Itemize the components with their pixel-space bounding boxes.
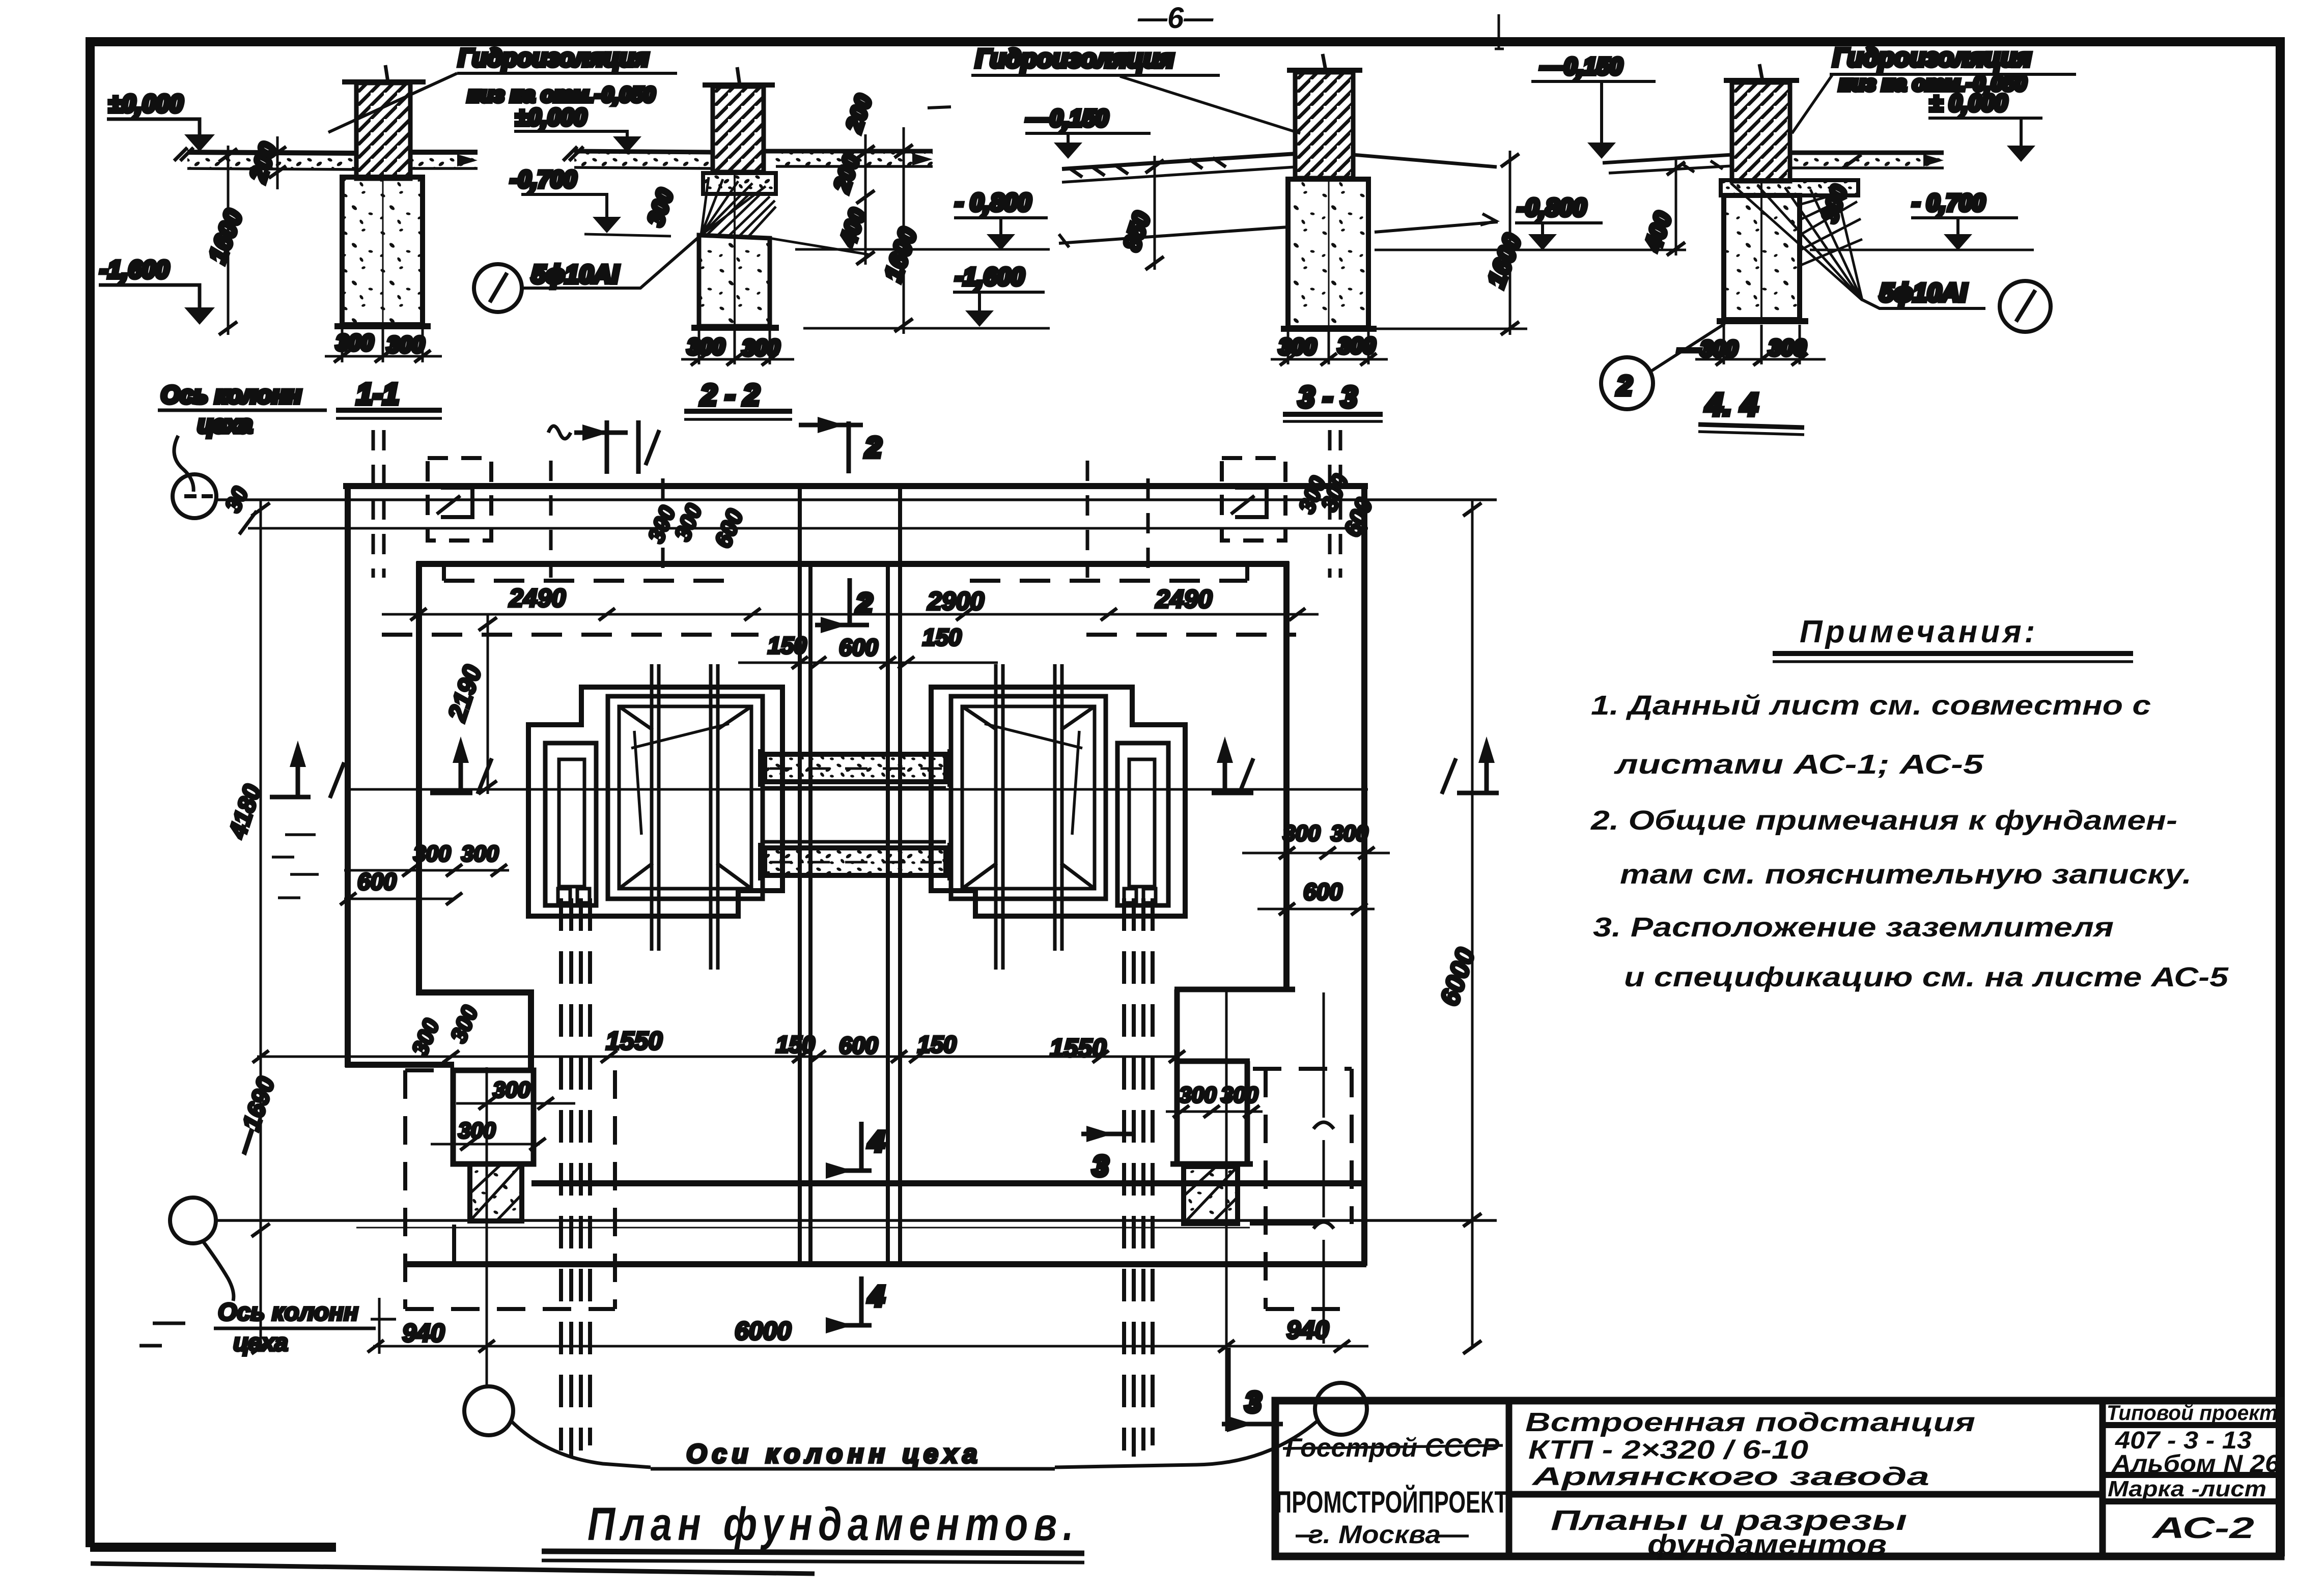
dashed pit outline right xyxy=(1266,1069,1352,1309)
column 1-1 (hatched brick) xyxy=(356,83,410,179)
dashed square on top wall (right) xyxy=(1222,458,1285,541)
svg-text:600: 600 xyxy=(1303,878,1342,905)
lower ground line left (3-3) xyxy=(1059,227,1288,243)
secondary line below axis A xyxy=(248,527,1368,530)
dashed column axes through top wall xyxy=(373,430,1340,578)
svg-text:-0,800: -0,800 xyxy=(1517,194,1586,221)
right vertical dim line 6000 xyxy=(1471,500,1474,1348)
dim 400 (4.4 left) xyxy=(1675,159,1677,255)
column 2-2 (hatched brick) xyxy=(713,87,764,172)
svg-text:цеха: цеха xyxy=(233,1329,288,1356)
horizontal dim line (2490/2900/2490) xyxy=(382,613,1319,616)
dim 2190 vertical xyxy=(487,614,489,794)
right pit column block (hatched) xyxy=(1184,1167,1238,1224)
svg-text:Марка -лист: Марка -лист xyxy=(2108,1476,2266,1501)
foundation haunch hatch 2-2 xyxy=(708,195,776,237)
svg-text:низ на отм.-0,050: низ на отм.-0,050 xyxy=(467,82,655,106)
svg-text:4: 4 xyxy=(868,1125,884,1157)
dashed pit outline left xyxy=(405,1070,615,1309)
left pit column block (hatched) xyxy=(470,1164,522,1221)
floor slab left of column 2-2 xyxy=(574,151,713,152)
svg-text:±0,000: ±0,000 xyxy=(108,91,183,118)
foundation block 1-1 (concrete) xyxy=(342,177,423,325)
svg-text:АС-2: АС-2 xyxy=(2151,1512,2254,1545)
svg-text:150: 150 xyxy=(768,632,807,659)
right pit box xyxy=(1170,989,1253,1164)
svg-text:600: 600 xyxy=(839,1032,878,1059)
central duct channel verticals xyxy=(800,564,900,1264)
dashed conduit group below left assembly xyxy=(561,898,590,1457)
rebar fan callout 4.4 xyxy=(1731,183,1862,300)
registration mark top xyxy=(1495,14,1504,50)
right broken dim line xyxy=(1323,992,1325,1344)
cut 3 upper xyxy=(1081,1132,1135,1136)
svg-text:3. Расположение заземлителя: 3. Расположение заземлителя xyxy=(1593,912,2114,943)
svg-text:1550: 1550 xyxy=(1050,1034,1106,1062)
bottom circles (Osi kolonn tsekha) xyxy=(464,1386,513,1435)
svg-text:300: 300 xyxy=(493,1077,530,1102)
right pit top edge xyxy=(1174,987,1295,992)
left pit box xyxy=(453,1070,534,1164)
central connector rails xyxy=(761,749,950,880)
outer wall left xyxy=(345,484,351,1067)
outer wall bottom-left step xyxy=(345,1062,454,1068)
svg-text:600: 600 xyxy=(357,868,397,895)
svg-text:—300: —300 xyxy=(1677,336,1738,361)
svg-text:3 - 3: 3 - 3 xyxy=(1298,381,1357,414)
svg-text:—0,150: —0,150 xyxy=(1540,53,1623,79)
inner wall top xyxy=(416,561,1289,567)
svg-text:2 - 2: 2 - 2 xyxy=(700,379,760,412)
svg-text:150: 150 xyxy=(917,1031,957,1058)
svg-text:- 0,800: - 0,800 xyxy=(955,189,1031,216)
svg-text:-1,600: -1,600 xyxy=(955,264,1024,291)
outer wall right xyxy=(1361,484,1367,1266)
inner wall left xyxy=(419,561,531,1070)
svg-text:1. Данный лист см. совместно: 1. Данный лист см. совместно с xyxy=(1591,690,2151,721)
dashed equipment outline (top band right) xyxy=(970,564,1247,581)
dim 300|300 under foundation 2-2 xyxy=(698,331,701,364)
foundation pad 4.4 (textured band) xyxy=(1721,180,1858,195)
svg-text:940: 940 xyxy=(1286,1316,1329,1344)
svg-text:Альбом N 26: Альбом N 26 xyxy=(2111,1451,2280,1477)
svg-text:300: 300 xyxy=(413,841,451,866)
svg-text:2. Общие примечания к фундам: 2. Общие примечания к фундамен- xyxy=(1590,805,2177,836)
rebar fan callout 2-2 xyxy=(701,177,766,235)
svg-text:2490: 2490 xyxy=(509,584,566,612)
svg-text:4: 4 xyxy=(868,1280,884,1312)
top axis circle xyxy=(173,474,216,518)
axis extension line through left pit xyxy=(486,1067,488,1387)
svg-text:300: 300 xyxy=(461,841,499,866)
dim 300|300 under foundation 3-3 xyxy=(1287,331,1290,364)
svg-text:листами АС-1; АС-5: листами АС-1; АС-5 xyxy=(1613,749,1984,780)
svg-text:150: 150 xyxy=(922,624,962,650)
svg-text:3: 3 xyxy=(1093,1150,1108,1182)
svg-text:-1,600: -1,600 xyxy=(100,257,169,283)
svg-text:300: 300 xyxy=(387,332,425,357)
dim 1600 vertical xyxy=(227,146,230,335)
svg-text:Типовой проект: Типовой проект xyxy=(2107,1401,2278,1425)
dashed equipment outline (top band left) xyxy=(444,564,743,581)
svg-text:2: 2 xyxy=(865,431,881,463)
transformer axis centerline xyxy=(345,788,1368,791)
sloping ramp right of column 3-3 xyxy=(1353,155,1497,167)
svg-text:150: 150 xyxy=(776,1031,815,1058)
svg-text:6000: 6000 xyxy=(735,1317,791,1345)
cut 1 left outside xyxy=(270,795,311,800)
svg-text:600: 600 xyxy=(839,634,878,661)
column 3-3 (hatched brick) xyxy=(1295,72,1353,178)
axis line A (top) xyxy=(216,498,1497,501)
cut 2 top xyxy=(799,423,863,428)
svg-text:—0,150: —0,150 xyxy=(1026,105,1109,131)
svg-text:2900: 2900 xyxy=(927,587,984,615)
svg-text:-0,700: -0,700 xyxy=(510,166,577,192)
right dims of 2-2 xyxy=(864,134,867,265)
svg-text:±0,000: ±0,000 xyxy=(515,104,587,130)
svg-text:300: 300 xyxy=(742,335,780,360)
svg-text:3: 3 xyxy=(1245,1386,1261,1418)
dashed conduit group below right assembly xyxy=(1124,898,1153,1457)
floor slab right of column 2-2 xyxy=(764,149,933,154)
bottom wall inner lines near pits xyxy=(454,1224,1319,1264)
left vertical dim line xyxy=(260,500,262,1348)
cut 3 lower xyxy=(1222,1422,1283,1427)
svg-text:Ось колонн: Ось колонн xyxy=(218,1299,358,1326)
foundation block 3-3 (concrete) xyxy=(1288,179,1368,328)
svg-text:4. 4: 4. 4 xyxy=(1704,387,1758,422)
svg-text:Гидроизоляция: Гидроизоляция xyxy=(1833,43,2031,72)
foundation body 2-2 xyxy=(699,235,770,326)
svg-text:КТП - 2×320 / 6-10: КТП - 2×320 / 6-10 xyxy=(1528,1435,1808,1465)
svg-text:300: 300 xyxy=(1769,335,1806,360)
svg-text:300: 300 xyxy=(1221,1083,1258,1107)
svg-text:1550: 1550 xyxy=(606,1027,662,1055)
svg-text:300: 300 xyxy=(1283,821,1321,846)
svg-text:2: 2 xyxy=(856,587,872,619)
floor slab right of column 1-1 xyxy=(410,150,478,155)
transformer assembly left xyxy=(528,664,782,970)
dim 300|300 under foundation 1-1 xyxy=(341,329,344,362)
svg-text:Гидроизоляция: Гидроизоляция xyxy=(458,45,649,72)
detail circle 2 xyxy=(1601,357,1653,409)
dim 200 floor xyxy=(276,136,279,189)
svg-text:Встроенная подстанция: Встроенная подстанция xyxy=(1525,1408,1975,1437)
svg-text:940: 940 xyxy=(402,1319,445,1347)
foundation pad 2-2 (textured band) xyxy=(703,173,776,194)
svg-text:1-1: 1-1 xyxy=(356,378,399,411)
svg-text:± 0,000: ± 0,000 xyxy=(1929,90,2008,116)
inner wall right xyxy=(1283,561,1290,989)
svg-text:там см. пояснительную запис: там см. пояснительную записку. xyxy=(1620,859,2192,890)
cut 1 left inside xyxy=(430,791,472,795)
axis line B (bottom) xyxy=(216,1219,1497,1222)
svg-text:5ϕ10AI: 5ϕ10AI xyxy=(531,260,619,289)
svg-text:Ось колонн: Ось колонн xyxy=(161,382,301,409)
svg-text:2: 2 xyxy=(1616,371,1632,401)
svg-text:300: 300 xyxy=(687,334,725,359)
cut 4 lower xyxy=(859,1276,864,1325)
cut 2 mid xyxy=(848,578,852,625)
svg-text:План фундаментов.: План фундаментов. xyxy=(587,1498,1079,1550)
detail circle 1 (right) xyxy=(2000,281,2051,332)
svg-text:300: 300 xyxy=(1338,333,1376,358)
column 4.4 (hatched brick) xyxy=(1732,82,1790,181)
svg-text:ПРОМСТРОЙПРОЕКТ: ПРОМСТРОЙПРОЕКТ xyxy=(1276,1485,1508,1519)
svg-text:г. Москва: г. Москва xyxy=(1308,1520,1441,1549)
bottom wall bottom edge xyxy=(404,1261,1366,1267)
svg-text:5ϕ10AI: 5ϕ10AI xyxy=(1880,278,1967,307)
svg-text:Армянского завода: Армянского завода xyxy=(1531,1462,1929,1491)
bottom wall top edge xyxy=(531,1180,1366,1186)
outer wall top xyxy=(343,483,1368,489)
detail circle 1 (left) xyxy=(474,264,522,312)
cut 1 top xyxy=(548,426,571,439)
foundation body 4.4 xyxy=(1724,195,1800,320)
svg-text:и спецификацию см. на листе: и спецификацию см. на листе АС-5 xyxy=(1624,962,2229,992)
svg-text:300: 300 xyxy=(1279,334,1317,359)
svg-text:Оси колонн цеха: Оси колонн цеха xyxy=(686,1439,982,1469)
bottom dim line 940/6000/940 xyxy=(373,1345,1368,1348)
svg-text:300: 300 xyxy=(1179,1083,1217,1107)
ramp left of column 4.4 xyxy=(1603,155,1732,163)
svg-text:—6—: —6— xyxy=(1137,2,1214,35)
horizontal dim line (1550/150/600/150/1550) xyxy=(257,1056,1177,1058)
dim 1600 (3-3 right) xyxy=(1509,151,1511,335)
dashed square on top wall (left) xyxy=(428,458,491,541)
floor right of column 4.4 xyxy=(1790,151,1944,155)
cut 1 right inside xyxy=(1212,791,1253,795)
svg-text:300: 300 xyxy=(1331,821,1368,846)
foundation haunch hatch 4.4 xyxy=(1800,195,1862,266)
cut 4 upper xyxy=(859,1122,864,1171)
svg-text:2490: 2490 xyxy=(1155,585,1212,613)
axis extension line through right pit xyxy=(1225,989,1228,1431)
dim 300|300 under foundation 4.4 xyxy=(1723,325,1725,364)
svg-text:300: 300 xyxy=(336,330,374,355)
cut 1 far right xyxy=(1457,791,1499,795)
floor slab left of column 1-1 xyxy=(187,152,356,153)
svg-text:Гидроизоляция: Гидроизоляция xyxy=(975,44,1174,73)
svg-text:цеха: цеха xyxy=(198,411,253,438)
bottom-left axis circle xyxy=(170,1198,216,1243)
svg-text:Примечания:: Примечания: xyxy=(1800,614,2038,649)
svg-text:фундаментов: фундаментов xyxy=(1647,1528,1887,1560)
svg-text:- 0,700: - 0,700 xyxy=(1912,189,1985,216)
dim 850 (3-3 left) xyxy=(1154,156,1156,270)
transformer assembly right xyxy=(931,664,1185,970)
sloping floor left of column 3-3 xyxy=(1062,154,1295,169)
